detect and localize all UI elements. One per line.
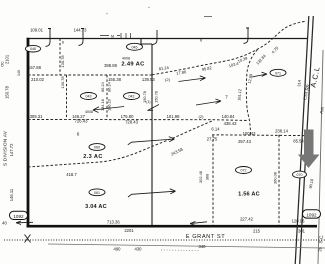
svg-text:438.43: 438.43 <box>224 121 237 126</box>
svg-text:309.31: 309.31 <box>30 114 43 119</box>
svg-text:046: 046 <box>30 47 36 51</box>
tick at x=201 below top line <box>200 39 202 42</box>
dashed curve B north-south <box>246 50 257 135</box>
svg-text:1092: 1092 <box>13 214 24 219</box>
railroad rail east <box>300 16 314 264</box>
svg-text:6.14: 6.14 <box>211 127 220 132</box>
svg-text:215: 215 <box>253 228 261 233</box>
railroad rail west <box>295 16 309 264</box>
svg-text:150.78: 150.78 <box>5 85 10 98</box>
dashed parcel line y=135 <box>212 134 305 137</box>
svg-text:061: 061 <box>94 191 100 195</box>
svg-text:85.54: 85.54 <box>293 139 304 144</box>
svg-text:257.43: 257.43 <box>238 139 251 144</box>
oval parcel 046 <box>25 45 40 52</box>
hook tick at x=50 on top line <box>46 29 52 47</box>
svg-text:140: 140 <box>17 70 21 76</box>
arrow near oval 071 <box>252 72 267 77</box>
svg-text:(2): (2) <box>165 77 171 82</box>
dashed parcel line y=119.5 <box>28 120 248 121</box>
svg-text:728.43: 728.43 <box>125 120 138 125</box>
faint dash top middle <box>204 16 212 18</box>
gray subject arrow <box>298 130 320 169</box>
page edge line far right <box>318 50 323 264</box>
svg-text:368: 368 <box>205 174 210 181</box>
svg-text:8: 8 <box>62 41 64 45</box>
svg-text:2201: 2201 <box>124 228 134 233</box>
svg-text:E GRANT ST: E GRANT ST <box>186 234 226 240</box>
svg-text:136.20: 136.20 <box>107 98 112 111</box>
svg-text:155.38: 155.38 <box>108 77 121 82</box>
svg-text:101.98: 101.98 <box>167 114 180 119</box>
svg-text:130.78: 130.78 <box>60 76 65 89</box>
svg-text:072: 072 <box>241 169 247 173</box>
svg-text:S DIVISION AV: S DIVISION AV <box>3 130 9 166</box>
dotted street row line <box>4 239 325 241</box>
arrow under oval 1092 left <box>16 221 33 225</box>
dashed vertical line x=213 <box>212 135 214 226</box>
svg-text:120.06: 120.06 <box>292 218 305 223</box>
svg-text:227.42: 227.42 <box>240 216 253 221</box>
svg-text:140.84: 140.84 <box>222 114 235 119</box>
svg-text:144.73: 144.73 <box>74 28 87 33</box>
svg-text:713.36: 713.36 <box>107 219 120 224</box>
X crossing mark at corner <box>25 235 31 243</box>
svg-text:060: 060 <box>94 146 100 150</box>
west boundary S Division Av thick line <box>27 38 30 227</box>
svg-text:042: 042 <box>129 95 135 99</box>
svg-text:398.88: 398.88 <box>104 63 117 68</box>
svg-text:4008: 4008 <box>122 57 130 61</box>
svg-text:86.24: 86.24 <box>100 81 105 92</box>
oval parcel 061 <box>89 189 105 196</box>
svg-text:146.11: 146.11 <box>9 188 14 201</box>
svg-text:86.24: 86.24 <box>107 81 112 92</box>
svg-text:161.12: 161.12 <box>236 89 242 101</box>
svg-text:418.7: 418.7 <box>66 172 77 177</box>
survey dashes above top line <box>100 35 120 37</box>
south boundary E Grant St thick line <box>27 225 318 228</box>
oval parcel 042 <box>124 93 140 100</box>
arrow in parcel 043 <box>93 107 124 113</box>
svg-text:27.75: 27.75 <box>207 137 218 142</box>
arrow below curve A <box>179 76 206 82</box>
dashed vertical line x=107 <box>106 75 108 120</box>
dashed parcel line y=75 <box>28 74 152 76</box>
oval street 1092 left <box>10 211 28 219</box>
svg-text:490: 490 <box>114 247 122 252</box>
interior solid north-south line x=152 <box>151 44 153 226</box>
svg-text:(2): (2) <box>199 114 205 119</box>
svg-text:360.08: 360.08 <box>272 172 277 184</box>
hook tick at x=248 on top line <box>244 28 250 44</box>
thin road edge line <box>48 244 325 248</box>
oval parcel 072 <box>236 167 252 174</box>
svg-text:238.14: 238.14 <box>275 128 288 133</box>
dashed vertical line x=279 <box>278 135 280 226</box>
svg-text:2.49 AC: 2.49 AC <box>121 61 145 67</box>
svg-text:2101: 2101 <box>5 54 10 64</box>
arrow at x=152 y=108 <box>148 105 160 111</box>
svg-text:134.16: 134.16 <box>100 99 105 111</box>
svg-text:3.04 AC: 3.04 AC <box>85 204 107 210</box>
oval parcel 043 <box>81 93 97 100</box>
dashed vertical line x=60 <box>59 39 61 76</box>
svg-text:043: 043 <box>86 95 92 99</box>
svg-text:OC: OC <box>1 61 5 67</box>
short dotted segment lower left of E Grant <box>161 249 199 252</box>
svg-text:045: 045 <box>132 45 138 49</box>
arrow in parcel 7 <box>196 99 221 105</box>
oval parcel 070 <box>293 171 307 178</box>
svg-text:301: 301 <box>298 228 306 233</box>
oval parcel 045 <box>127 43 143 50</box>
oval parcel 060 <box>89 144 105 151</box>
dashed curve C parcel 060/061 split <box>28 121 213 168</box>
arrow above E Grant St <box>190 221 207 225</box>
svg-text:147.72: 147.72 <box>9 143 14 156</box>
svg-text:157.88: 157.88 <box>28 65 41 70</box>
top section boundary line <box>27 38 308 40</box>
hook tick at x=155 on top line <box>153 30 158 45</box>
hook tick at x=83 on top line <box>79 29 85 46</box>
scan speck top right <box>148 7 149 8</box>
svg-text:070: 070 <box>297 173 303 177</box>
boundary jog near x=141 <box>141 39 152 45</box>
svg-text:S.C.: S.C. <box>318 234 324 243</box>
svg-text:M: M <box>111 34 114 38</box>
svg-text:150.78: 150.78 <box>153 91 158 103</box>
svg-text:210.02: 210.02 <box>31 77 44 82</box>
svg-text:430: 430 <box>135 247 143 252</box>
svg-text:40: 40 <box>2 221 7 226</box>
svg-text:4008: 4008 <box>85 110 93 114</box>
svg-text:1092: 1092 <box>306 213 317 218</box>
oval parcel 071 <box>270 69 286 76</box>
svg-text:6: 6 <box>77 131 80 136</box>
svg-text:(1): (1) <box>146 100 150 104</box>
scan speck top middle <box>106 13 107 14</box>
oval street 1092 right <box>303 210 321 218</box>
tick marks above top line <box>121 33 131 39</box>
svg-text:340: 340 <box>199 244 207 249</box>
svg-text:1.56 AC: 1.56 AC <box>238 192 260 198</box>
svg-text:302.48: 302.48 <box>198 171 203 183</box>
svg-text:130.78: 130.78 <box>60 55 65 68</box>
svg-text:7: 7 <box>225 95 228 100</box>
svg-text:109.01: 109.01 <box>30 28 43 33</box>
svg-text:175.80: 175.80 <box>121 114 134 119</box>
svg-text:726.43: 726.43 <box>75 119 88 124</box>
svg-text:139.53: 139.53 <box>142 77 155 82</box>
svg-text:071: 071 <box>275 71 281 75</box>
dashed vertical line x=66.5 <box>66 75 68 120</box>
svg-text:2.3 AC: 2.3 AC <box>83 154 103 160</box>
leader arrow crossing x=152 lower <box>128 189 176 197</box>
svg-text:100.43: 100.43 <box>243 131 256 136</box>
leader arrow crossing x=152 upper <box>128 137 175 145</box>
dashed curve A to railroad <box>152 21 307 75</box>
